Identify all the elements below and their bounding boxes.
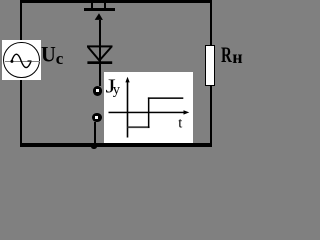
wire top xyxy=(20,0,212,3)
graph y-axis xyxy=(0,0,254,154)
terminal 1 xyxy=(93,86,102,95)
diode VD1 xyxy=(0,0,254,154)
svg-text:н: н xyxy=(232,47,242,67)
label t xyxy=(0,0,254,154)
inset graph white box xyxy=(104,72,193,143)
AC source sine wave xyxy=(0,0,254,154)
AC source axis line xyxy=(5,61,40,63)
valve V1 plate xyxy=(84,8,115,11)
valve V1 anode arrow xyxy=(0,0,254,154)
wire bottom xyxy=(20,143,212,147)
valve V1 cathode stub right xyxy=(104,2,106,8)
label R xyxy=(0,0,254,154)
wire left upper xyxy=(20,0,22,42)
valve V1 cathode stub left xyxy=(91,2,93,8)
wire terminal to bottom xyxy=(94,122,96,144)
source U_c white patch xyxy=(2,40,41,81)
AC source circle xyxy=(3,42,40,79)
label R subscript n xyxy=(0,0,254,154)
label U subscript c xyxy=(0,0,254,154)
wire right upper xyxy=(210,0,212,45)
terminal 2 xyxy=(92,113,101,122)
wire arrow stem xyxy=(99,20,101,46)
junction dot xyxy=(91,144,97,150)
label J xyxy=(0,0,254,154)
label U xyxy=(0,0,254,154)
resistor R_n body xyxy=(205,45,215,86)
wire right lower xyxy=(210,85,212,143)
graph x-axis xyxy=(0,0,254,154)
label J subscript y xyxy=(0,0,254,154)
wire left lower xyxy=(20,79,22,144)
wire diode vertical xyxy=(99,47,101,86)
graph step curve xyxy=(0,0,254,154)
